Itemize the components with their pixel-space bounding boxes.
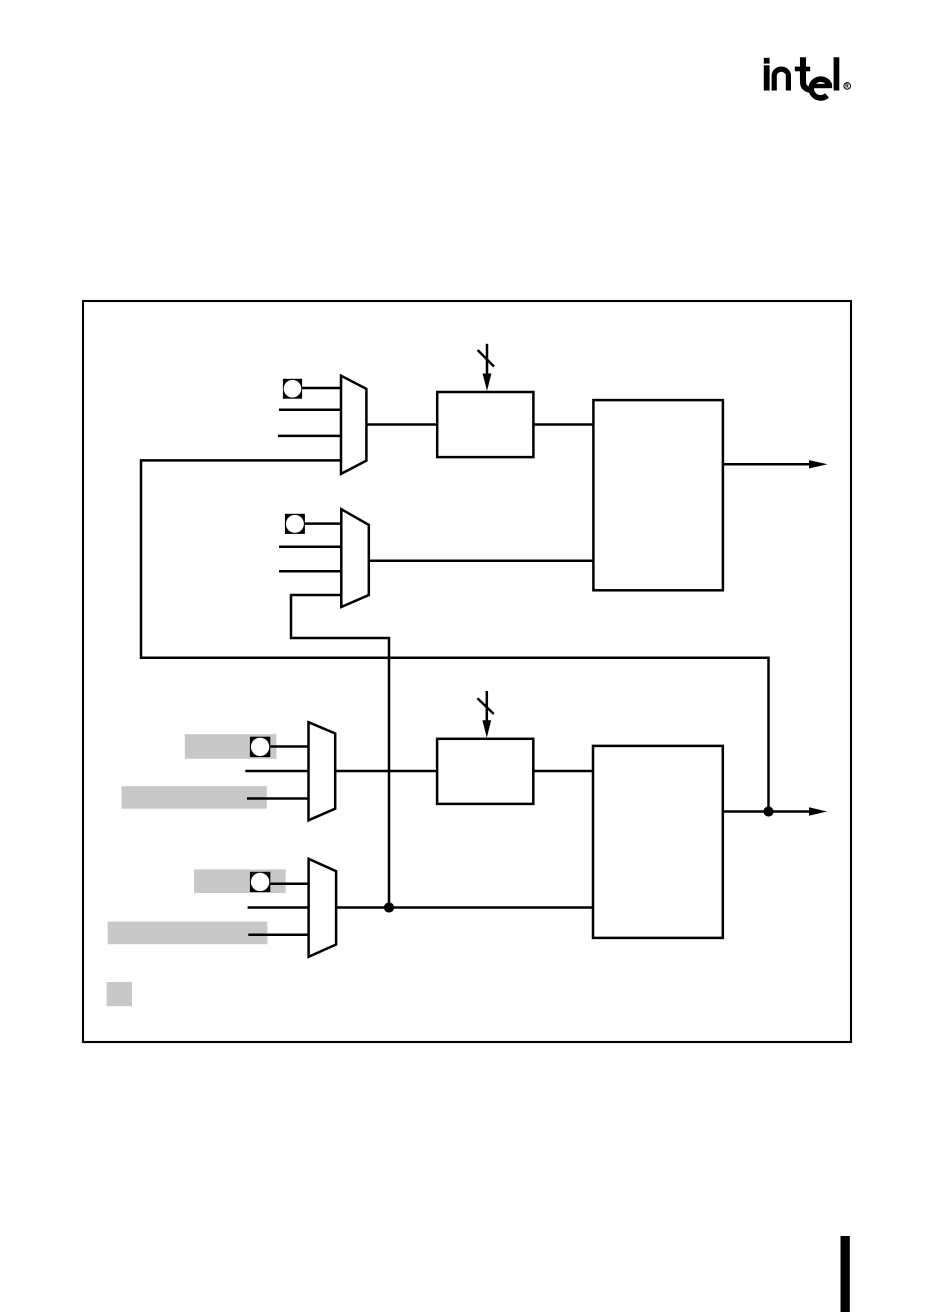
wire M3 input 3: [247, 797, 309, 800]
bus-width slash arrow into PS2: [477, 691, 493, 738]
label placeholder G3 (gray): [194, 869, 286, 893]
intel logo: [764, 57, 851, 98]
wire M3 output to PS2: [335, 770, 437, 773]
wire M1 input 3: [278, 435, 341, 438]
label placeholder G1 (gray): [185, 734, 277, 759]
wire M2 input 2: [279, 546, 341, 549]
mux M1: [341, 376, 366, 474]
wire PS1 to T1: [533, 423, 593, 426]
wire M2 input 3: [279, 570, 341, 573]
timer block T1: [593, 400, 723, 590]
wire P3 to M3: [270, 745, 308, 748]
wire M1 input 4 (feedback from T2 output): [141, 460, 769, 811]
wire M4 input 3: [248, 934, 308, 937]
wire T2 output arrow: [723, 807, 827, 816]
mux M2: [341, 509, 369, 607]
label placeholder G2 (gray): [122, 786, 267, 809]
pin symbol P3: [250, 737, 270, 757]
page tab bar (bottom right): [841, 1236, 850, 1312]
label placeholder G4 (gray): [108, 922, 268, 945]
bus-width slash arrow into PS1: [478, 344, 494, 391]
wire M3 input 2: [245, 770, 308, 773]
pin symbol P2: [285, 514, 305, 534]
wire M1 output to PS1: [366, 423, 437, 426]
wire T1 output arrow: [723, 460, 828, 468]
wire P2 to M2: [305, 522, 342, 525]
wire M4 input 2: [248, 906, 309, 909]
junction dot J1 (T2 output / feedback to M1): [763, 806, 773, 816]
wire M1 input 2: [279, 409, 341, 412]
wire PS2 to T2: [533, 770, 593, 773]
legend swatch (gray): [107, 982, 132, 1006]
mux M3: [309, 722, 336, 820]
wire P1 to M1: [302, 387, 341, 390]
wire M4 output to T2: [336, 906, 593, 909]
junction dot J2 (M4 output / feedback to M2): [384, 902, 394, 912]
pin symbol P4: [250, 872, 270, 892]
wire P4 to M4: [270, 882, 308, 885]
wire M2 output to T1: [369, 560, 594, 563]
mux M4: [309, 859, 337, 957]
pin symbol P1: [283, 379, 302, 399]
timer block T2: [593, 746, 723, 938]
prescaler PS2: [437, 739, 533, 804]
prescaler PS1: [437, 392, 533, 457]
wire M2 input 4 (feedback from M4 output): [291, 595, 389, 908]
